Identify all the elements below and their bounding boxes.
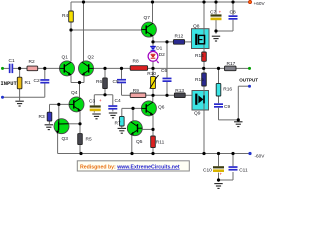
svg-text:C3: C3 [89, 99, 95, 105]
svg-text:Q2: Q2 [88, 55, 95, 61]
svg-text:Q5: Q5 [136, 139, 143, 145]
svg-text:Q7: Q7 [144, 15, 151, 21]
svg-text:R15: R15 [195, 77, 204, 83]
svg-text:D1: D1 [156, 46, 162, 52]
svg-text:Q3: Q3 [62, 136, 69, 142]
svg-text:C10: C10 [203, 167, 212, 173]
svg-text:R5: R5 [86, 137, 92, 143]
svg-text:+: + [220, 172, 223, 177]
svg-text:R4: R4 [62, 13, 68, 19]
svg-text:+: + [99, 98, 102, 103]
svg-text:Q8: Q8 [193, 24, 200, 30]
svg-text:R17: R17 [227, 61, 236, 67]
svg-text:R2: R2 [29, 59, 35, 65]
svg-text:R10: R10 [147, 71, 156, 77]
svg-text:C9: C9 [224, 104, 230, 110]
svg-text:C6: C6 [161, 68, 167, 74]
svg-text:Q1: Q1 [62, 55, 69, 61]
svg-text:+60V: +60V [254, 1, 266, 6]
svg-text:C2: C2 [34, 78, 40, 84]
svg-text:OUTPUT: OUTPUT [239, 77, 258, 82]
svg-text:R8: R8 [133, 59, 139, 65]
svg-text:R14: R14 [195, 53, 204, 59]
svg-text:D2: D2 [159, 52, 165, 58]
svg-text:Q9: Q9 [194, 110, 201, 116]
svg-text:INPUT: INPUT [1, 81, 18, 87]
svg-text:R12: R12 [175, 34, 184, 40]
svg-text:R16: R16 [223, 87, 232, 93]
svg-text:R3: R3 [39, 114, 45, 120]
svg-text:R13: R13 [175, 88, 184, 94]
svg-text:R1: R1 [25, 80, 31, 86]
svg-text:R6: R6 [96, 79, 102, 85]
svg-text:R7: R7 [115, 121, 121, 127]
svg-text:C1: C1 [9, 58, 15, 64]
svg-text:C7: C7 [210, 10, 216, 16]
svg-text:C5: C5 [113, 79, 119, 85]
svg-text:R9: R9 [133, 88, 139, 94]
svg-text:C4: C4 [115, 98, 121, 104]
svg-text:-60V: -60V [255, 153, 266, 158]
svg-text:R11: R11 [156, 140, 165, 146]
svg-text:+: + [219, 10, 222, 15]
svg-text:Q6: Q6 [158, 104, 165, 110]
svg-text:C8: C8 [230, 10, 236, 16]
svg-text:Redisgned by: www.ExtremeCircu: Redisgned by: www.ExtremeCircuits.net [80, 164, 180, 170]
svg-text:Q4: Q4 [71, 90, 78, 96]
svg-text:C11: C11 [239, 167, 248, 173]
